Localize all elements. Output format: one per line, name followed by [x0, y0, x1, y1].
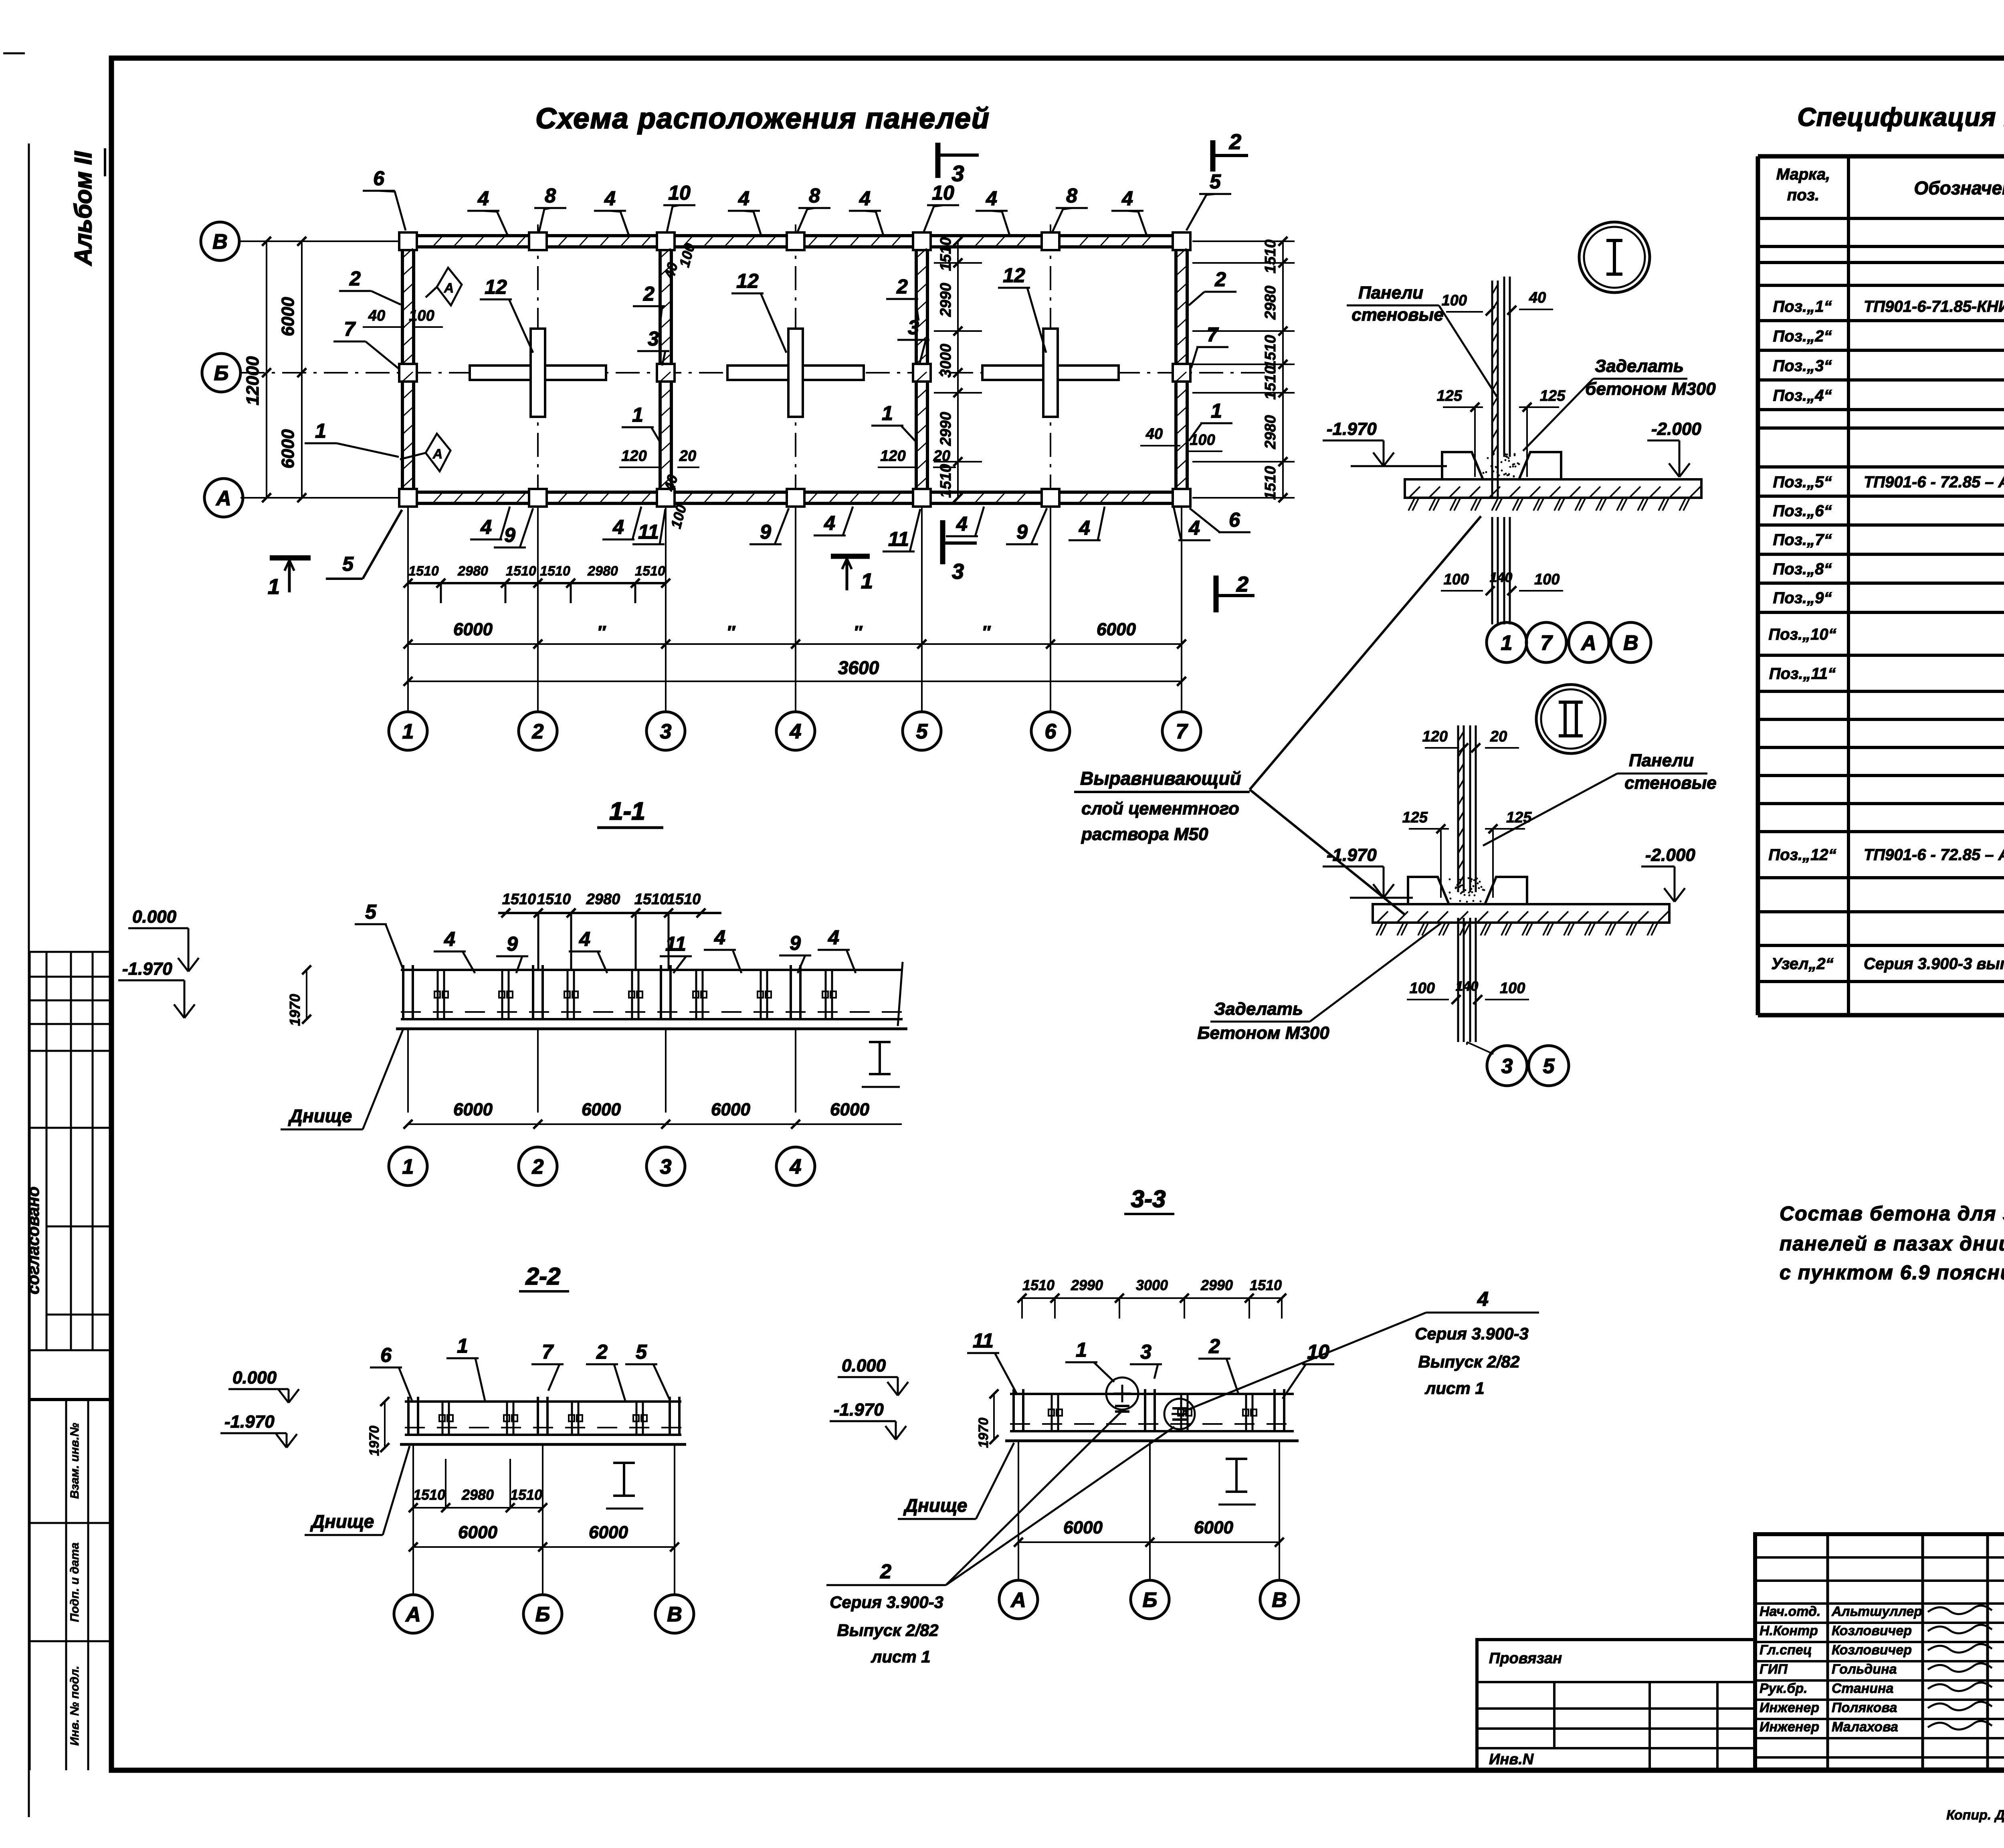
svg-text:100: 100	[1500, 980, 1525, 997]
svg-text:Рук.бр.: Рук.бр.	[1760, 1681, 1808, 1696]
svg-text:А: А	[444, 281, 454, 296]
svg-text:2980: 2980	[587, 563, 618, 579]
svg-text:20: 20	[679, 448, 696, 465]
svg-text:1510: 1510	[1262, 335, 1279, 369]
svg-text:1970: 1970	[287, 994, 303, 1026]
svg-text:раствора М50: раствора М50	[1081, 824, 1208, 844]
svg-text:7: 7	[542, 1341, 554, 1363]
svg-text:А: А	[215, 487, 231, 510]
section 2-2 axis circles	[412, 1445, 414, 1594]
svg-text:4: 4	[859, 187, 871, 210]
view marker rhombus A upper	[437, 268, 462, 305]
svg-text:12: 12	[485, 276, 507, 298]
svg-text:1510: 1510	[506, 563, 536, 579]
svg-text:2980: 2980	[1262, 286, 1279, 320]
svg-text:Поз.„5“: Поз.„5“	[1773, 473, 1832, 491]
svg-text:Панели: Панели	[1629, 751, 1694, 770]
svg-text:ГИП: ГИП	[1760, 1662, 1788, 1677]
section 3-3 dim 6000 6000	[1018, 1541, 1279, 1543]
svg-text:Альтшуллер: Альтшуллер	[1831, 1604, 1922, 1619]
svg-text:Инженер: Инженер	[1760, 1700, 1819, 1715]
svg-text:1510: 1510	[1022, 1277, 1055, 1293]
detail I circle	[1579, 222, 1650, 293]
svg-text:6000: 6000	[830, 1100, 869, 1119]
svg-text:2980: 2980	[586, 891, 620, 908]
svg-text:Поз.„3“: Поз.„3“	[1773, 357, 1832, 375]
svg-text:5: 5	[636, 1341, 647, 1363]
svg-text:с пунктом 6.9 пояснительной: с пунктом 6.9 пояснительной записки в ал…	[1780, 1261, 2004, 1284]
section 2-2 dim chain 1510 2980 1510	[413, 1507, 543, 1509]
svg-text:лист 1: лист 1	[871, 1647, 931, 1666]
svg-text:12000: 12000	[243, 356, 263, 405]
svg-text:Поз.„8“: Поз.„8“	[1773, 560, 1832, 578]
top wall row V	[403, 234, 1187, 237]
svg-text:4: 4	[612, 516, 624, 538]
svg-text:3: 3	[952, 559, 964, 584]
section 3-3 top dim chain	[1022, 1297, 1282, 1299]
svg-text:Инв.N: Инв.N	[1489, 1751, 1534, 1768]
svg-text:Инв. № подл.: Инв. № подл.	[68, 1666, 81, 1745]
svg-text:Поз.„11“: Поз.„11“	[1769, 665, 1836, 683]
svg-text:7: 7	[1176, 720, 1188, 743]
svg-text:Выпуск 2/82: Выпуск 2/82	[837, 1621, 938, 1640]
svg-text:40: 40	[368, 307, 385, 324]
bottom dim 6000 row	[408, 643, 1182, 645]
section 2-2 dim 1970	[384, 1402, 386, 1448]
svg-text:В: В	[667, 1603, 682, 1626]
svg-text:10: 10	[932, 182, 954, 204]
section 2-2 break mark I	[623, 1463, 625, 1496]
svg-text:А: А	[1010, 1589, 1026, 1612]
svg-text:Поз.„9“: Поз.„9“	[1773, 589, 1832, 607]
svg-text:Серия 3.900-3: Серия 3.900-3	[1415, 1324, 1529, 1343]
svg-text:6000: 6000	[582, 1100, 621, 1119]
svg-text:4: 4	[480, 516, 492, 538]
svg-text:4: 4	[444, 928, 455, 950]
svg-text:1: 1	[1076, 1339, 1087, 1361]
svg-text:слой цементного: слой цементного	[1081, 799, 1239, 818]
svg-text:6000: 6000	[589, 1523, 628, 1542]
svg-text:1510: 1510	[667, 891, 701, 908]
svg-text:4: 4	[1477, 1288, 1489, 1310]
svg-text:Козловичер: Козловичер	[1832, 1642, 1912, 1658]
svg-text:6000: 6000	[453, 620, 493, 639]
svg-text:9: 9	[760, 521, 771, 543]
svg-text:3: 3	[1501, 1055, 1513, 1078]
svg-text:лист 1: лист 1	[1424, 1379, 1485, 1398]
svg-text:Серия 3.900-3 вып. 2/82: Серия 3.900-3 вып. 2/82	[1864, 955, 2004, 973]
svg-text:9: 9	[1016, 521, 1028, 543]
svg-text:3: 3	[951, 161, 964, 186]
detail II mortar dots	[1480, 901, 1482, 903]
svg-text:Поз.„6“: Поз.„6“	[1773, 502, 1832, 520]
svg-text:100: 100	[1534, 571, 1560, 588]
svg-text:Б: Б	[1143, 1589, 1158, 1612]
svg-text:стеновые: стеновые	[1351, 305, 1444, 325]
svg-text:Выпуск 2/82: Выпуск 2/82	[1418, 1352, 1519, 1371]
svg-text:4: 4	[828, 926, 839, 949]
svg-text:9: 9	[507, 933, 518, 955]
svg-text:4: 4	[604, 187, 616, 210]
svg-text:10: 10	[668, 182, 691, 204]
detail I wall	[1491, 281, 1493, 497]
svg-text:В: В	[1272, 1589, 1287, 1612]
svg-text:11: 11	[973, 1329, 994, 1352]
svg-text:Малахова: Малахова	[1832, 1719, 1898, 1735]
svg-text:120: 120	[621, 448, 646, 465]
svg-text:5: 5	[1210, 170, 1221, 193]
cross columns at B row	[470, 366, 606, 380]
svg-text:4: 4	[956, 513, 968, 535]
svg-text:1: 1	[632, 404, 643, 426]
section 1-1 axis circles	[407, 1028, 409, 1113]
svg-text:8: 8	[545, 184, 556, 207]
svg-text:Нач.отд.: Нач.отд.	[1760, 1604, 1820, 1619]
svg-text:140: 140	[1490, 570, 1513, 585]
svg-text:12: 12	[1003, 264, 1025, 287]
svg-text:1510: 1510	[502, 891, 536, 908]
section 2-2 band	[405, 1400, 681, 1403]
svg-text:панелей в пазах днища при: панелей в пазах днища принимать в соотве…	[1780, 1232, 2004, 1255]
section mark 3 top	[935, 143, 941, 178]
svg-text:0.000: 0.000	[232, 1368, 277, 1388]
svg-text:3: 3	[660, 1155, 672, 1179]
svg-text:125: 125	[1437, 388, 1463, 404]
wall junction plates	[399, 232, 417, 250]
svg-text:2: 2	[896, 275, 908, 298]
svg-text:Полякова: Полякова	[1832, 1700, 1897, 1715]
svg-text:В: В	[212, 230, 228, 254]
svg-text:1510: 1510	[635, 563, 665, 579]
svg-text:11: 11	[665, 933, 686, 955]
svg-text:6000: 6000	[453, 1100, 493, 1119]
section 1-1 break mark	[879, 1042, 881, 1074]
svg-text:1: 1	[402, 1155, 414, 1179]
plan row axis lines	[240, 240, 403, 242]
svg-text:5: 5	[342, 553, 354, 575]
svg-text:0.000: 0.000	[132, 907, 177, 927]
section 1-1 bottom dim line	[408, 1123, 902, 1125]
svg-text:1510: 1510	[540, 563, 570, 579]
svg-text:Поз.„7“: Поз.„7“	[1773, 531, 1832, 549]
left dim 12000	[266, 241, 267, 498]
left dim 6000 6000	[301, 241, 303, 498]
svg-text:125: 125	[1402, 809, 1428, 826]
spec table grid	[1756, 156, 1760, 1015]
svg-text:2: 2	[1208, 1335, 1220, 1357]
svg-text:Поз.„10“: Поз.„10“	[1768, 626, 1836, 643]
svg-text:3: 3	[660, 720, 672, 743]
wall hatch marks	[403, 248, 413, 257]
svg-text:1970: 1970	[976, 1418, 991, 1448]
svg-text:Поз.„12“: Поз.„12“	[1768, 846, 1836, 864]
svg-text:Днище: Днище	[310, 1511, 374, 1532]
svg-text:7: 7	[344, 318, 356, 340]
svg-text:1510: 1510	[937, 237, 954, 271]
svg-text:2990: 2990	[937, 412, 954, 446]
svg-text:3-3: 3-3	[1131, 1186, 1166, 1212]
svg-text:120: 120	[1422, 728, 1448, 745]
svg-text:2990: 2990	[1071, 1277, 1103, 1293]
svg-text:Поз.„2“: Поз.„2“	[1773, 327, 1832, 345]
svg-text:Н.Контр: Н.Контр	[1760, 1623, 1818, 1638]
svg-text:4: 4	[986, 187, 997, 210]
svg-text:6000: 6000	[711, 1100, 750, 1119]
svg-text:Инженер: Инженер	[1760, 1719, 1819, 1735]
svg-text:А: А	[405, 1603, 421, 1626]
plan column axis centerlines 2 4 6	[537, 224, 539, 493]
section 3-3 band	[1010, 1393, 1294, 1395]
section 1-1 top dim chain	[498, 912, 721, 914]
svg-text:2990: 2990	[1200, 1277, 1233, 1293]
svg-text:Альбом II: Альбом II	[70, 151, 97, 266]
section 3-3 detail circles	[1106, 1377, 1138, 1410]
svg-text:6000: 6000	[1097, 620, 1136, 639]
view marker rhombus A lower	[426, 434, 450, 471]
svg-text:3: 3	[648, 327, 659, 350]
svg-text:1: 1	[882, 402, 893, 424]
svg-text:11: 11	[888, 528, 909, 550]
svg-text:Днище: Днище	[903, 1495, 968, 1516]
svg-text:4: 4	[790, 720, 802, 743]
svg-text:Заделать: Заделать	[1214, 999, 1303, 1019]
svg-text:6000: 6000	[278, 297, 298, 336]
svg-text:Б: Б	[214, 362, 229, 385]
svg-text:Гольдина: Гольдина	[1832, 1662, 1897, 1677]
svg-text:6: 6	[1045, 720, 1057, 743]
svg-text:6: 6	[1229, 509, 1240, 531]
svg-text:А: А	[1580, 632, 1596, 655]
svg-text:Козловичер: Козловичер	[1832, 1623, 1912, 1638]
svg-text:1: 1	[402, 720, 414, 743]
svg-text:100: 100	[1444, 571, 1469, 588]
svg-text:6000: 6000	[458, 1523, 497, 1542]
svg-text:125: 125	[1506, 809, 1532, 826]
section 1-1 band	[401, 969, 903, 971]
svg-text:Схема расположения панелей: Схема расположения панелей	[535, 103, 990, 135]
svg-text:1510: 1510	[634, 891, 669, 908]
detail I mortar dots	[1491, 465, 1493, 467]
svg-text:Б: Б	[535, 1603, 550, 1626]
svg-text:2: 2	[596, 1341, 608, 1363]
plan axis circles bottom	[389, 712, 427, 750]
leader to detail I	[1250, 516, 1481, 790]
svg-text:бетоном М300: бетоном М300	[1585, 379, 1716, 399]
section mark 1 bottom mid	[831, 554, 870, 559]
svg-text:3000: 3000	[937, 344, 954, 378]
svg-text:2: 2	[643, 283, 655, 305]
svg-text:Поз.„1“: Поз.„1“	[1773, 298, 1832, 315]
svg-text:100: 100	[409, 307, 434, 324]
svg-text:4: 4	[477, 187, 489, 210]
svg-text:-1.970: -1.970	[122, 959, 172, 979]
title block frame	[1755, 1534, 2004, 1769]
section 2-2 dim 6000 6000	[413, 1546, 675, 1548]
bottom dim 3600 overall	[408, 681, 1182, 682]
svg-text:4: 4	[824, 512, 835, 534]
svg-text:″: ″	[853, 622, 863, 642]
section mark 2 bottom right	[1214, 576, 1219, 612]
svg-text:1: 1	[861, 569, 873, 593]
svg-text:А: А	[432, 446, 443, 462]
svg-text:2980: 2980	[457, 563, 488, 579]
svg-text:11: 11	[638, 521, 659, 543]
svg-text:6000: 6000	[1194, 1518, 1233, 1537]
svg-text:Узел„2“: Узел„2“	[1771, 955, 1833, 973]
svg-text:5: 5	[916, 720, 928, 743]
svg-text:согласовано: согласовано	[24, 1186, 42, 1294]
svg-text:1510: 1510	[408, 563, 439, 579]
svg-text:4: 4	[738, 187, 749, 210]
bottom wall row A	[403, 491, 1187, 494]
svg-text:ТП901-6-71.85-КНИ1. Ч.1: ТП901-6-71.85-КНИ1. Ч.1	[1864, 298, 2004, 315]
svg-text:-1.970: -1.970	[834, 1400, 884, 1420]
svg-text:ТП901-6 - 72.85 – АС-11: ТП901-6 - 72.85 – АС-11	[1864, 846, 2004, 864]
svg-text:125: 125	[1540, 388, 1566, 404]
svg-text:-1.970: -1.970	[1327, 845, 1377, 865]
section mark 1 bottom left	[270, 555, 311, 561]
bottom small dim chain 1510 2980 1510	[408, 582, 666, 584]
svg-text:40: 40	[1529, 289, 1546, 306]
svg-text:6: 6	[373, 167, 385, 190]
svg-text:1: 1	[268, 575, 280, 599]
svg-text:Состав бетона для замонолич: Состав бетона для замоноличивания стенов…	[1780, 1202, 2004, 1225]
svg-text:1510: 1510	[510, 1486, 542, 1503]
svg-text:1510: 1510	[413, 1486, 445, 1503]
svg-text:Спецификация к схеме располо: Спецификация к схеме расположения панеле…	[1797, 103, 2004, 131]
svg-text:1510: 1510	[537, 891, 571, 908]
svg-text:2-2: 2-2	[525, 1263, 561, 1290]
svg-text:5: 5	[365, 901, 377, 923]
svg-text:9: 9	[790, 932, 801, 954]
svg-text:5: 5	[1543, 1055, 1555, 1078]
svg-text:2980: 2980	[1262, 415, 1279, 450]
right vertical dim chain	[1282, 241, 1284, 498]
svg-text:1510: 1510	[1262, 466, 1279, 500]
svg-text:9: 9	[504, 524, 515, 546]
page fold line left	[28, 143, 30, 1817]
svg-text:-1.970: -1.970	[1327, 419, 1377, 439]
svg-text:Бетоном М300: Бетоном М300	[1197, 1023, 1329, 1043]
detail II axis circles 3 5	[1466, 1042, 1468, 1045]
svg-text:120: 120	[880, 448, 905, 465]
svg-text:3: 3	[1140, 1341, 1151, 1363]
svg-text:Панели: Панели	[1358, 283, 1423, 303]
svg-text:100: 100	[1442, 292, 1467, 309]
svg-text:4: 4	[714, 926, 725, 949]
svg-text:7: 7	[1541, 632, 1553, 655]
svg-text:40: 40	[1145, 426, 1163, 442]
svg-text:7: 7	[1207, 323, 1219, 346]
svg-text:6000: 6000	[278, 429, 298, 469]
svg-text:4: 4	[1121, 187, 1133, 210]
svg-text:140: 140	[1456, 979, 1479, 994]
svg-text:1510: 1510	[937, 464, 954, 498]
vertical walls axes 1 3 5 7	[401, 234, 404, 505]
svg-text:6: 6	[380, 1344, 392, 1366]
svg-text:Станина: Станина	[1832, 1681, 1893, 1696]
svg-text:2: 2	[1229, 130, 1241, 154]
detail II circle	[1536, 685, 1605, 753]
svg-text:стеновые: стеновые	[1624, 773, 1717, 793]
svg-text:4: 4	[1079, 517, 1090, 539]
svg-text:1: 1	[1501, 632, 1513, 655]
section 3-3 axis circles	[1018, 1441, 1019, 1580]
svg-text:Выравнивающий: Выравнивающий	[1080, 768, 1241, 789]
svg-text:Обозначение: Обозначение	[1914, 178, 2004, 198]
svg-text:В: В	[1623, 632, 1638, 655]
svg-text:Поз.„4“: Поз.„4“	[1773, 387, 1832, 404]
svg-text:3000: 3000	[1136, 1277, 1168, 1293]
svg-text:-2.000: -2.000	[1651, 419, 1701, 439]
mid vertical dim chain 1510 2990 3000 2990 1510	[957, 241, 959, 498]
svg-text:1510: 1510	[1262, 240, 1279, 274]
detail II foundation	[1408, 877, 1449, 904]
title block left columns	[1826, 1534, 1829, 1769]
left stamp strip grid	[30, 951, 111, 953]
section 3-3 dim 1970	[993, 1394, 995, 1440]
svg-text:-1.970: -1.970	[224, 1412, 275, 1432]
svg-text:Взам. инв.№: Взам. инв.№	[68, 1423, 81, 1499]
svg-text:ТП901-6 - 72.85 – АС-8: ТП901-6 - 72.85 – АС-8	[1864, 473, 2004, 491]
svg-text:Провязан: Провязан	[1489, 1650, 1562, 1667]
svg-text:2: 2	[532, 1155, 544, 1179]
svg-text:2: 2	[349, 267, 361, 290]
svg-text:8: 8	[809, 184, 820, 207]
small table provyazan	[1477, 1640, 1755, 1770]
svg-text:2: 2	[880, 1560, 891, 1583]
svg-text:3600: 3600	[838, 657, 879, 678]
svg-text:20: 20	[1490, 728, 1507, 745]
svg-text:поз.: поз.	[1787, 186, 1819, 204]
svg-text:1510: 1510	[1262, 366, 1279, 400]
leader to detail II	[1250, 790, 1405, 915]
svg-text:6000: 6000	[1063, 1518, 1103, 1537]
svg-text:0.000: 0.000	[842, 1356, 886, 1375]
svg-text:8: 8	[1066, 184, 1077, 207]
svg-text:20: 20	[933, 448, 950, 465]
svg-text:-2.000: -2.000	[1645, 845, 1695, 865]
section 1-1 dim 1970	[306, 970, 307, 1019]
detail I axis circles 1 7 A V	[1500, 622, 1502, 624]
plan row circles left	[201, 222, 239, 261]
svg-text:3: 3	[908, 316, 919, 339]
top-left corner tick	[3, 53, 25, 55]
svg-text:Гл.спец: Гл.спец	[1760, 1642, 1812, 1658]
svg-text:4: 4	[1188, 517, 1200, 539]
svg-text:4: 4	[579, 928, 590, 950]
svg-text:Серия 3.900-3: Серия 3.900-3	[830, 1593, 943, 1612]
svg-text:″: ″	[982, 622, 991, 642]
svg-text:1970: 1970	[367, 1426, 382, 1456]
svg-text:″: ″	[597, 622, 606, 642]
svg-text:100: 100	[1410, 980, 1435, 997]
svg-text:″: ″	[726, 622, 735, 642]
svg-text:1: 1	[457, 1335, 468, 1357]
section 3-3 break mark II	[1235, 1459, 1238, 1492]
section mark 2 top right	[1210, 140, 1216, 172]
svg-text:2: 2	[1214, 268, 1226, 291]
svg-text:12: 12	[736, 270, 759, 292]
plan column axis lines below wall	[407, 506, 409, 712]
svg-text:1510: 1510	[1250, 1277, 1282, 1293]
svg-text:Заделать: Заделать	[1595, 356, 1684, 376]
svg-text:1: 1	[1211, 400, 1222, 422]
svg-text:1: 1	[315, 420, 326, 442]
svg-text:Днище: Днище	[288, 1105, 352, 1126]
svg-text:1-1: 1-1	[609, 798, 645, 825]
svg-text:2990: 2990	[937, 283, 954, 317]
